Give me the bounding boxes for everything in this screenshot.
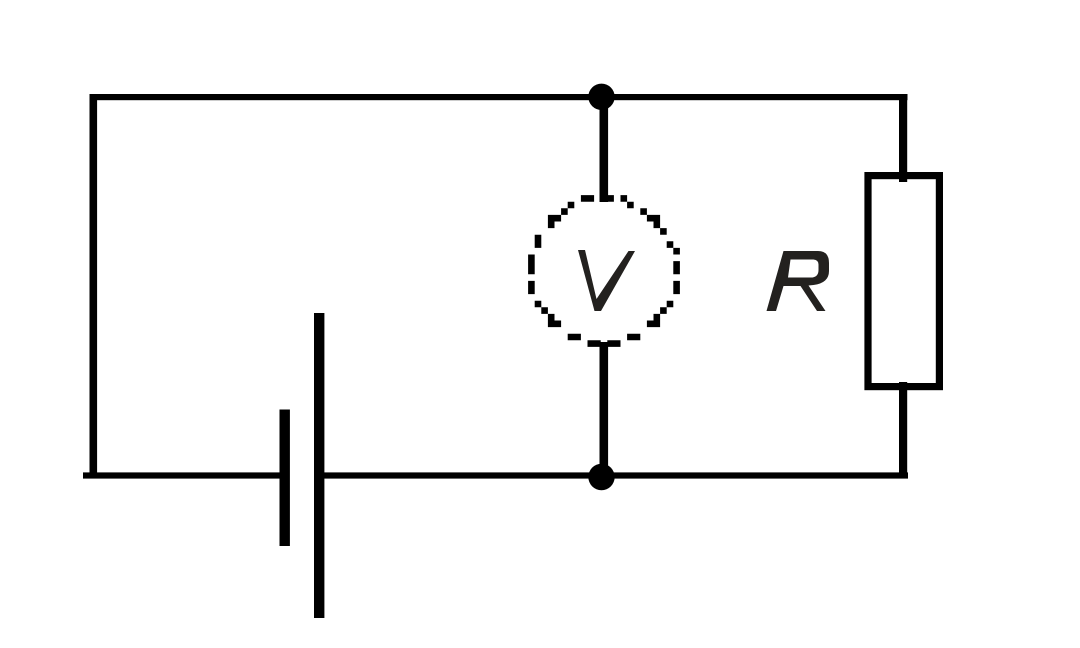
voltmeter V1: letter V [578, 250, 635, 311]
battery cell: short plate (negative terminal) [280, 410, 290, 547]
wire: voltmeter branch, upper segment [600, 94, 609, 202]
wire: right vertical, lower segment (resistor to bottom wire) [899, 382, 907, 479]
wire: right vertical, upper segment (top wire to resistor) [899, 94, 907, 182]
node: top junction dot [588, 84, 614, 110]
resistor R: label [767, 251, 830, 311]
resistor R: body rectangle [868, 176, 939, 387]
wire: voltmeter branch, lower segment [600, 342, 609, 479]
wire: top horizontal [90, 94, 908, 100]
wire: bottom horizontal, right segment (battery to right side) [324, 472, 908, 478]
wire: left vertical [90, 94, 98, 479]
wire: bottom horizontal, left segment (to battery) [83, 472, 280, 478]
battery cell: long plate (positive terminal) [314, 313, 324, 618]
voltmeter V1: pixelated circle body [528, 195, 680, 347]
node: bottom junction dot [588, 464, 614, 490]
